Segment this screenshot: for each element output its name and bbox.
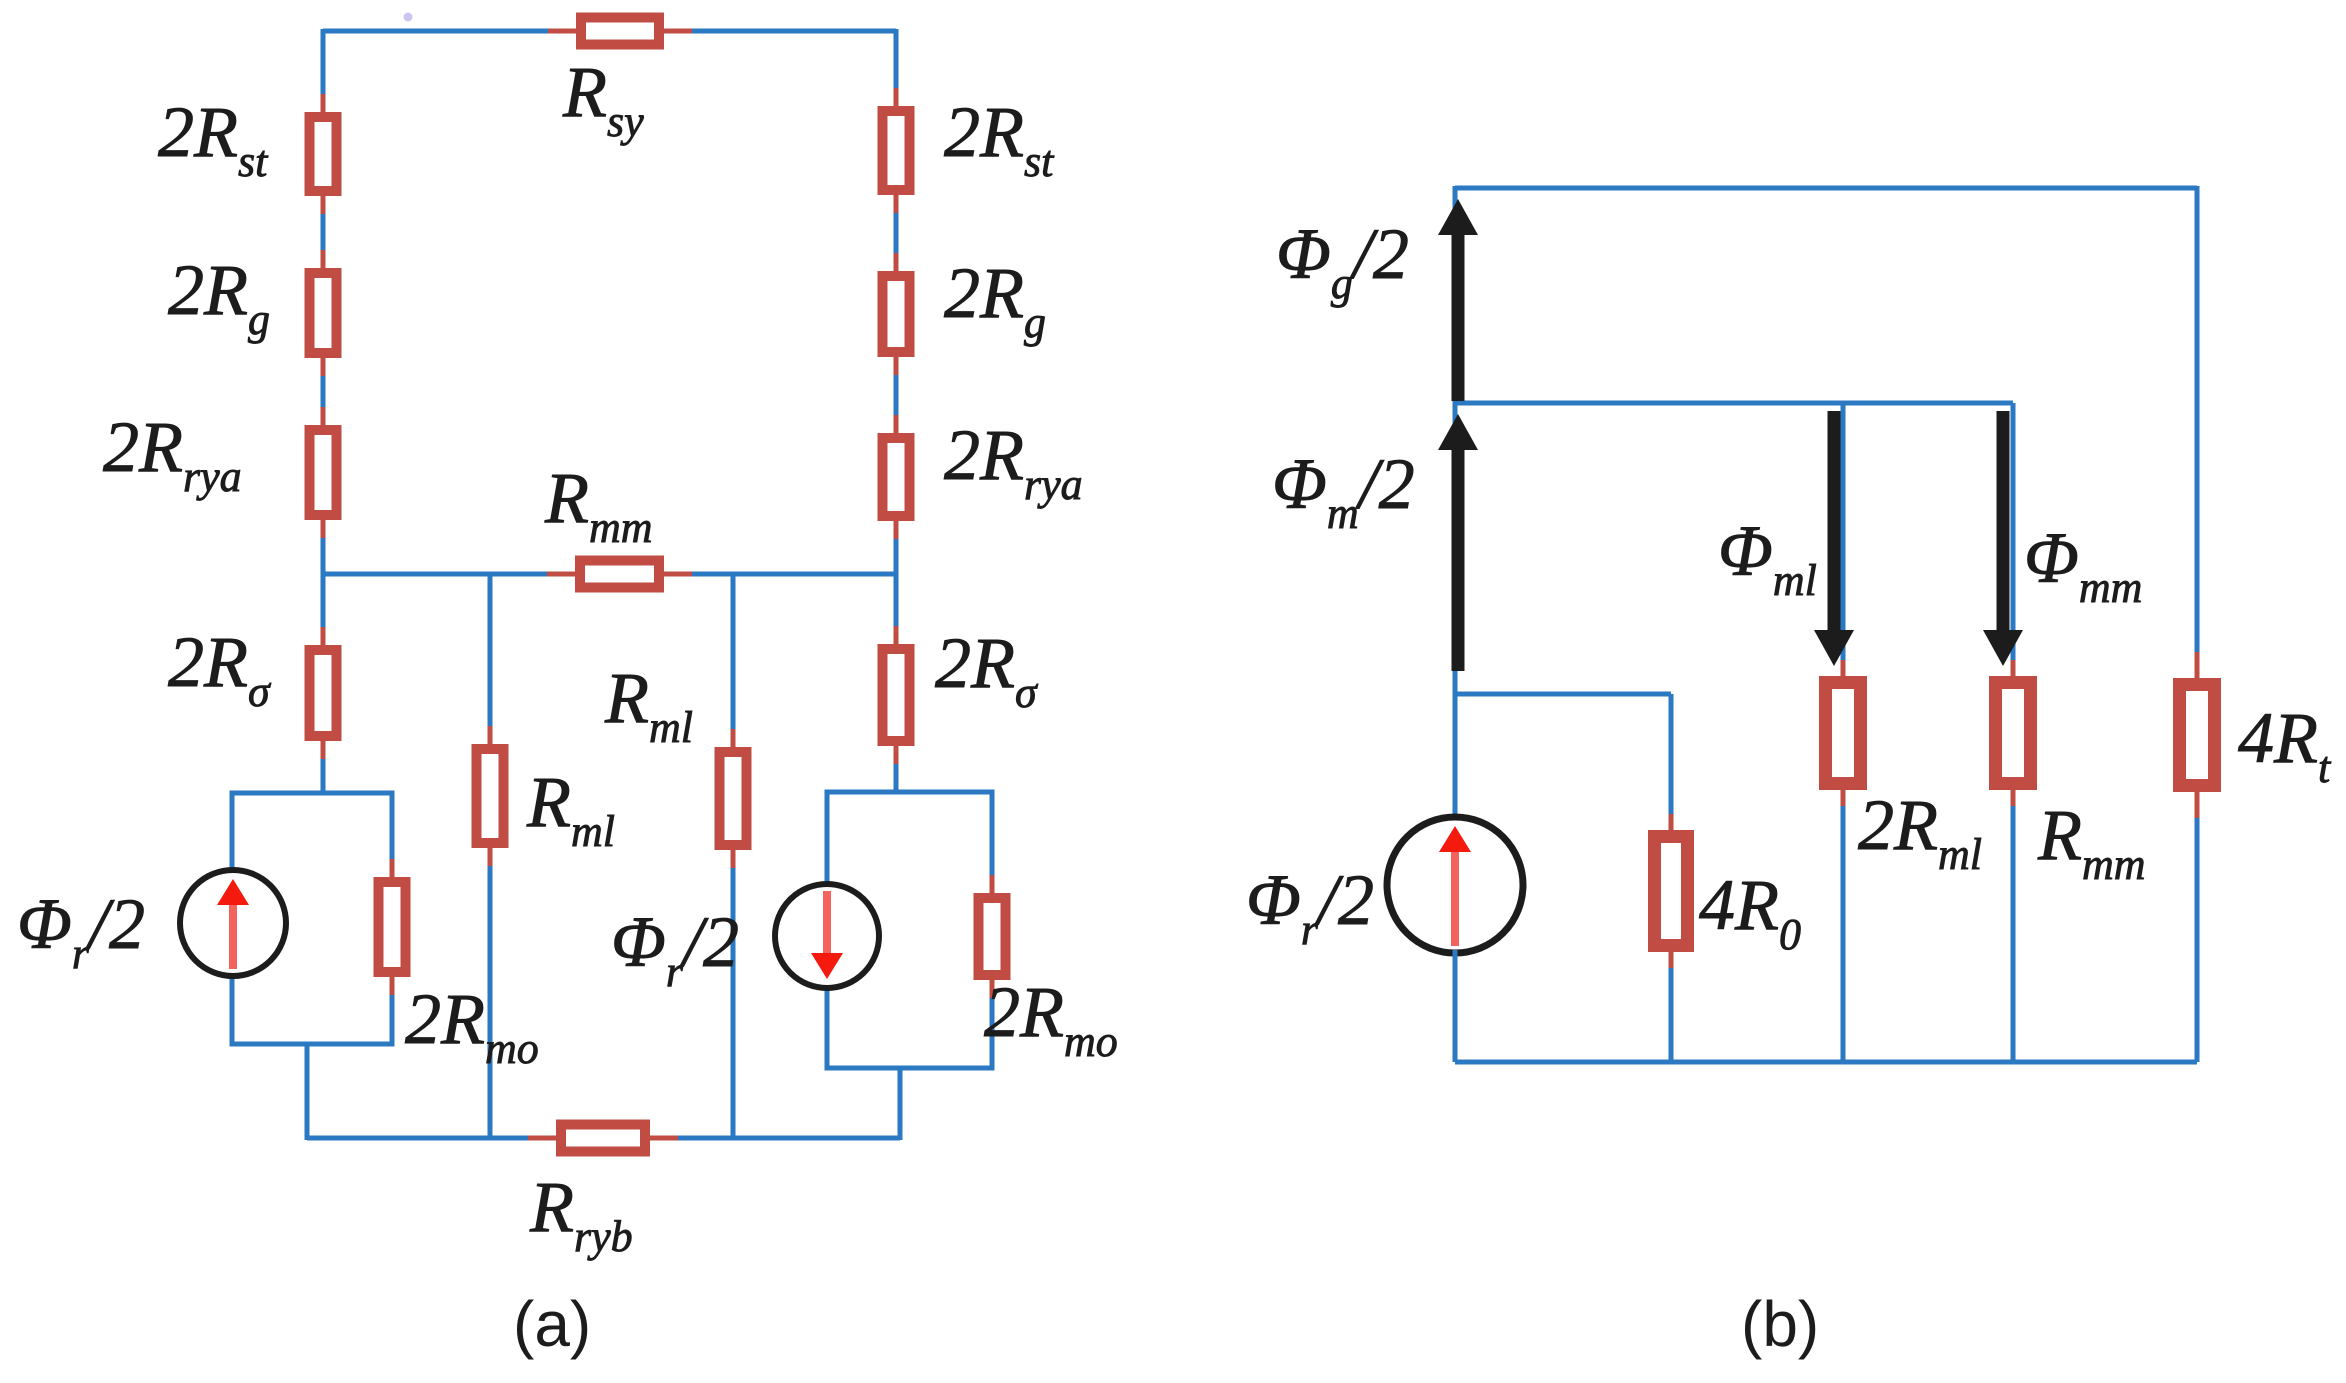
resistor 2R_rya left [310, 407, 337, 538]
label 2R_rya right [944, 415, 1083, 509]
label R_ryb [529, 1167, 633, 1261]
wire: (a) inner branch 1 vertical [488, 574, 493, 1138]
wire: (b) subloop top horizontal [1455, 692, 1671, 697]
resistor R_mm (b) [1996, 660, 2031, 806]
label Phi_r/2 (b) [1246, 860, 1374, 954]
label R_mm (b) [2037, 795, 2146, 889]
resistor R_ml branch 1 [477, 726, 504, 866]
resistor 2R_st right [883, 88, 910, 213]
resistor R_ml branch 2 [720, 729, 747, 868]
label R_mm (a) [544, 458, 653, 552]
wire: (b) second horizontal [1455, 401, 2013, 406]
wire: (a) right source loop [827, 792, 992, 1068]
label 4R_0 [1699, 865, 1801, 959]
label 2R_sigma left [168, 622, 272, 716]
label 2R_rya left [103, 407, 242, 501]
label 4R_t [2238, 698, 2332, 792]
resistor 2R_mo right [979, 875, 1006, 998]
label 2R_mo right [984, 972, 1118, 1066]
wire: (a) bottom bus [307, 1136, 900, 1141]
wire: (b) left vertical [1453, 186, 1458, 817]
label Phi_r/2 left [17, 884, 145, 978]
wire: (a) top horizontal [323, 29, 896, 34]
wire: (b) 2R_ml branch vertical [1841, 403, 1846, 1062]
wire: (a) left source loop [232, 793, 392, 1044]
flux source Phi_r/2 left (circle, red up arrow) [180, 870, 286, 976]
flux arrow Phi_g/2 [1438, 199, 1478, 401]
label (b) [1741, 1288, 1819, 1360]
resistor 2R_sigma left [310, 627, 337, 759]
resistor 2R_st left [310, 94, 337, 214]
resistor 4R_t [2180, 652, 2215, 818]
resistor 2R_g right [883, 253, 910, 375]
flux arrow Phi_ml [1814, 411, 1854, 666]
label Phi_mm [2024, 518, 2142, 612]
svg-text:4Rt: 4Rt [2238, 698, 2332, 792]
resistor R_ryb [528, 1125, 678, 1152]
wire: (a) right loop to bottom bus [898, 1068, 903, 1140]
wire: (a) left loop to bottom bus [305, 1044, 310, 1140]
label Phi_m/2 [1272, 444, 1415, 538]
wire: (b) R_mm branch vertical [2011, 403, 2016, 1062]
resistor 2R_mo left [379, 859, 406, 995]
resistor 2R_ml [1826, 660, 1861, 806]
resistor R_sy [548, 18, 692, 45]
label R_ml branch1 [526, 762, 615, 856]
svg-text:(a): (a) [513, 1288, 591, 1360]
resistor 4R_0 [1655, 814, 1688, 968]
wire: (b) subloop right vertical [1669, 694, 1674, 1062]
stray purple dot artifact [404, 13, 413, 22]
label Phi_g/2 [1276, 214, 1409, 308]
wire: (a) inner branch 2 vertical [731, 574, 736, 1138]
label 2R_sigma right [935, 623, 1039, 717]
resistor 2R_g left [310, 250, 337, 376]
svg-text:(b): (b) [1741, 1288, 1819, 1360]
flux arrow Phi_m/2 [1438, 414, 1478, 671]
label 2R_mo left [405, 979, 539, 1073]
resistor R_mm [547, 561, 692, 588]
flux source Phi_r/2 right (circle, red down arrow) [775, 884, 879, 988]
wire: (b) bottom bus [1455, 1060, 2197, 1065]
label 2R_st left [158, 92, 269, 186]
label Phi_r/2 right [611, 902, 739, 996]
wire: (b) left vertical below source [1453, 950, 1458, 1062]
flux arrow Phi_mm [1983, 411, 2023, 666]
resistor 2R_sigma right [883, 626, 910, 764]
wire: (a) left vertical branch [321, 29, 326, 793]
label R_sy [562, 52, 644, 146]
wire: (a) middle horizontal [323, 572, 896, 577]
label (a) [513, 1288, 591, 1360]
label 2R_st right [944, 92, 1055, 186]
label Phi_ml [1718, 511, 1817, 605]
wire: (b) right vertical [2195, 186, 2200, 1062]
resistor 2R_rya right [883, 415, 910, 539]
label 2R_g right [944, 253, 1046, 347]
label 2R_ml [1858, 785, 1982, 879]
wire: (b) top horizontal [1455, 186, 2197, 191]
label R_ml branch2 [604, 658, 693, 752]
label 2R_g left [168, 250, 270, 344]
wire: (a) right vertical branch [894, 29, 899, 792]
flux source Phi_r/2 (b) (circle, red up arrow) [1387, 817, 1523, 953]
